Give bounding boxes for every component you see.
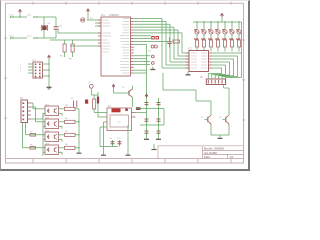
svg-text:R3: R3 xyxy=(65,105,69,107)
svg-text:IC1: IC1 xyxy=(101,14,105,17)
svg-text:C5: C5 xyxy=(88,82,92,84)
svg-text:R5: R5 xyxy=(65,131,69,133)
svg-text:R1: R1 xyxy=(60,56,64,58)
svg-text:Q1-1: Q1-1 xyxy=(27,15,32,17)
svg-text:T2: T2 xyxy=(219,117,222,119)
svg-text:R4: R4 xyxy=(65,118,69,120)
svg-text:C6: C6 xyxy=(109,138,112,140)
svg-text:1: 1 xyxy=(20,65,22,67)
svg-text:5: 5 xyxy=(20,71,22,73)
svg-text:Date:: Date: xyxy=(204,155,211,159)
svg-text:D1: D1 xyxy=(90,18,94,20)
svg-text:S1: S1 xyxy=(148,51,151,53)
svg-text:R7: R7 xyxy=(30,132,32,134)
svg-text:R2: R2 xyxy=(69,59,73,61)
svg-text:R8: R8 xyxy=(30,145,32,147)
svg-text:T1: T1 xyxy=(201,117,204,119)
svg-text:C7: C7 xyxy=(117,138,120,140)
svg-text:3: 3 xyxy=(20,68,22,70)
svg-text:T3: T3 xyxy=(122,87,125,89)
svg-text:Q1: Q1 xyxy=(48,23,52,25)
svg-text:S2: S2 xyxy=(71,98,74,100)
svg-text:C3: C3 xyxy=(59,25,63,27)
svg-text:K1: K1 xyxy=(108,106,112,108)
svg-text:R6: R6 xyxy=(65,144,69,146)
svg-text:X1-2: X1-2 xyxy=(9,36,14,38)
svg-text:1/1: 1/1 xyxy=(230,155,234,159)
svg-text:Q1-2: Q1-2 xyxy=(27,36,32,38)
svg-text:AT89S52: AT89S52 xyxy=(109,14,119,17)
svg-text:G5V: G5V xyxy=(117,122,122,124)
svg-text:X1-1: X1-1 xyxy=(9,15,14,17)
svg-text:X2: X2 xyxy=(200,77,204,79)
